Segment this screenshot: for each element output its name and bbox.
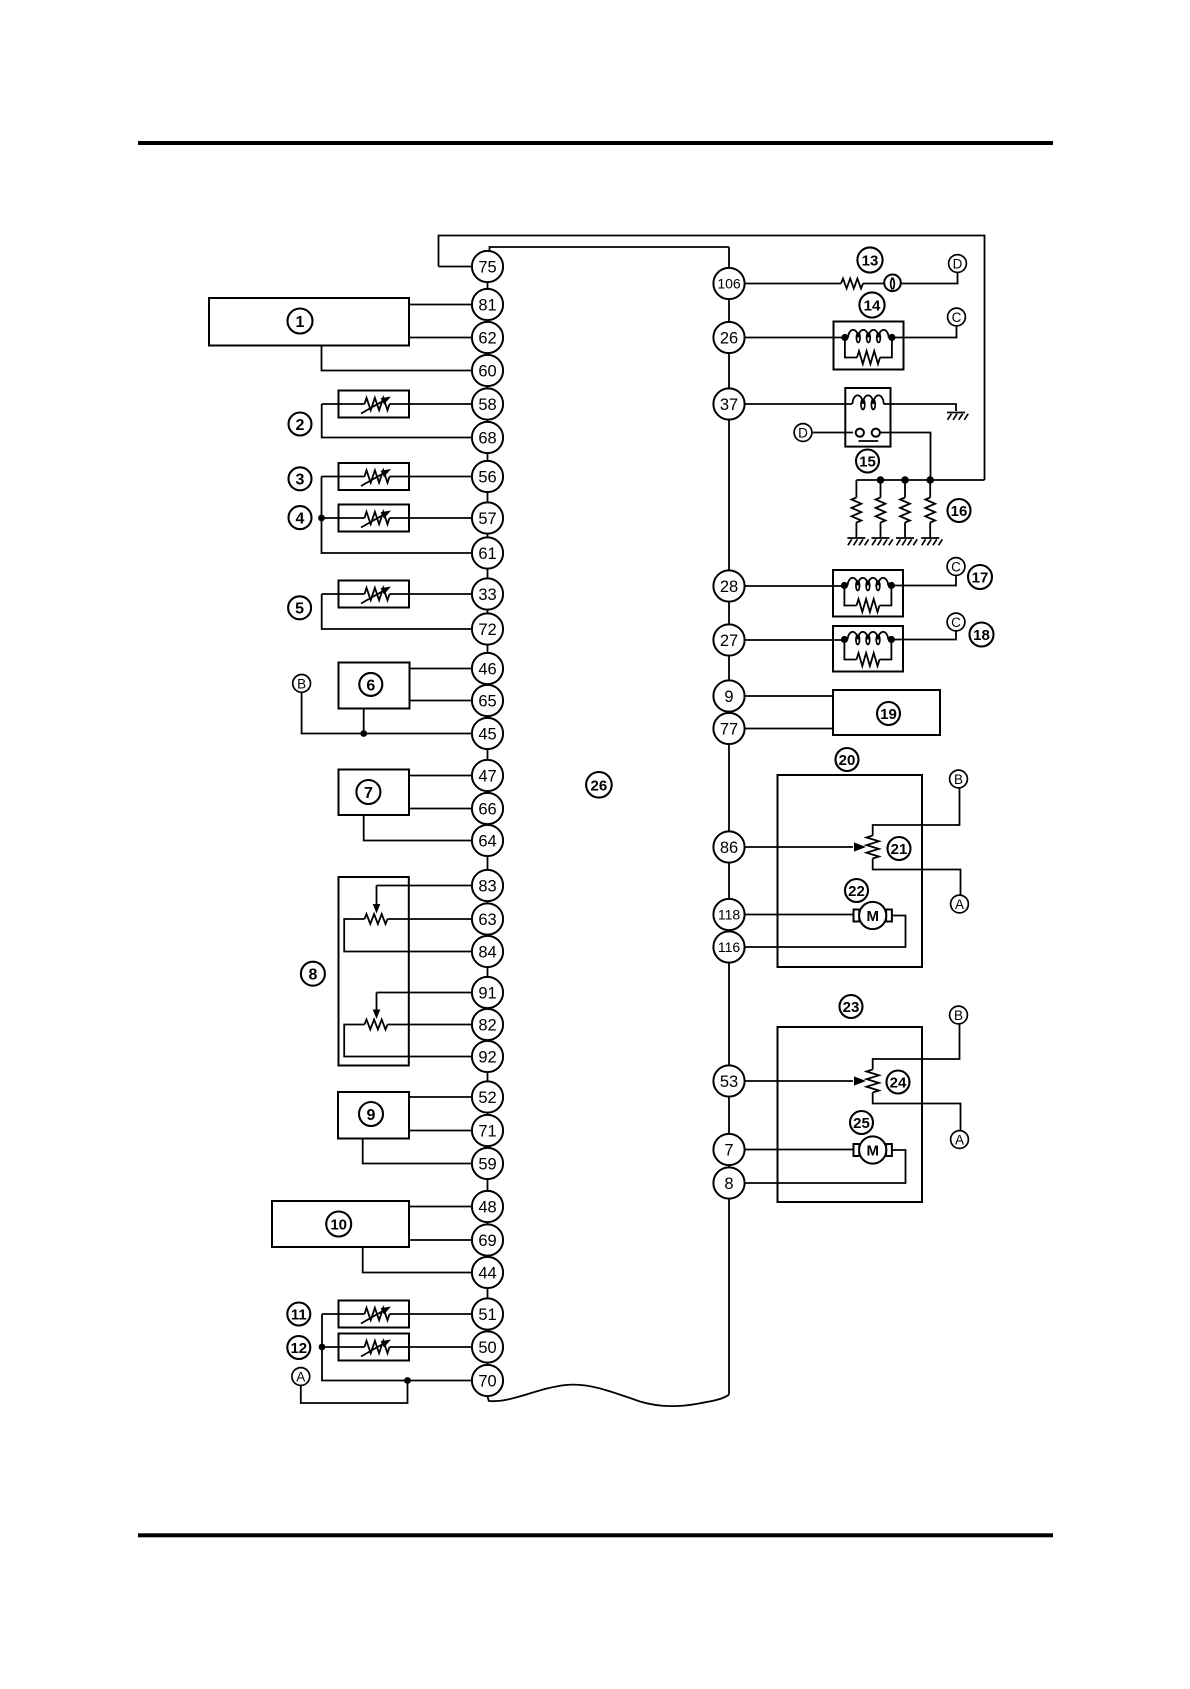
svg-text:77: 77 xyxy=(720,720,738,738)
svg-text:7: 7 xyxy=(364,785,373,802)
svg-text:37: 37 xyxy=(720,396,738,414)
svg-text:19: 19 xyxy=(880,706,897,723)
svg-text:92: 92 xyxy=(478,1048,496,1066)
svg-text:71: 71 xyxy=(478,1122,496,1140)
svg-text:17: 17 xyxy=(972,570,989,587)
svg-text:8: 8 xyxy=(308,967,317,984)
svg-text:18: 18 xyxy=(973,627,990,644)
svg-text:28: 28 xyxy=(720,578,738,596)
svg-text:63: 63 xyxy=(478,911,496,929)
svg-text:3: 3 xyxy=(296,472,305,489)
svg-text:D: D xyxy=(953,256,963,271)
svg-text:M: M xyxy=(866,908,879,925)
svg-text:33: 33 xyxy=(478,586,496,604)
svg-text:2: 2 xyxy=(296,417,305,434)
svg-text:24: 24 xyxy=(890,1075,907,1092)
svg-text:9: 9 xyxy=(367,1107,376,1124)
svg-text:44: 44 xyxy=(478,1264,496,1282)
svg-text:46: 46 xyxy=(478,660,496,678)
svg-text:16: 16 xyxy=(951,503,968,520)
svg-text:27: 27 xyxy=(720,632,738,650)
svg-text:11: 11 xyxy=(291,1307,307,1324)
svg-text:81: 81 xyxy=(478,296,496,314)
svg-text:9: 9 xyxy=(724,688,733,706)
svg-text:72: 72 xyxy=(478,621,496,639)
svg-text:61: 61 xyxy=(478,545,496,563)
svg-text:C: C xyxy=(951,615,961,630)
svg-text:83: 83 xyxy=(478,877,496,895)
svg-text:69: 69 xyxy=(478,1232,496,1250)
svg-text:68: 68 xyxy=(478,429,496,447)
svg-text:66: 66 xyxy=(478,800,496,818)
svg-text:25: 25 xyxy=(853,1115,870,1132)
svg-text:84: 84 xyxy=(478,943,496,961)
svg-text:57: 57 xyxy=(478,510,496,528)
svg-text:D: D xyxy=(798,425,808,440)
svg-text:8: 8 xyxy=(724,1175,733,1193)
svg-text:48: 48 xyxy=(478,1198,496,1216)
svg-text:52: 52 xyxy=(478,1089,496,1107)
svg-text:10: 10 xyxy=(330,1217,347,1234)
svg-text:A: A xyxy=(955,1132,964,1147)
svg-text:65: 65 xyxy=(478,692,496,710)
svg-text:118: 118 xyxy=(718,907,741,923)
svg-text:14: 14 xyxy=(864,298,881,315)
svg-text:47: 47 xyxy=(478,767,496,785)
svg-text:C: C xyxy=(951,559,961,574)
svg-text:20: 20 xyxy=(839,752,856,769)
svg-text:12: 12 xyxy=(290,1340,307,1357)
svg-text:45: 45 xyxy=(478,725,496,743)
svg-text:91: 91 xyxy=(478,984,496,1002)
svg-text:1: 1 xyxy=(296,314,305,331)
svg-text:13: 13 xyxy=(862,253,879,270)
svg-text:26: 26 xyxy=(720,329,738,347)
svg-text:15: 15 xyxy=(859,454,876,471)
svg-text:51: 51 xyxy=(478,1306,496,1324)
svg-text:M: M xyxy=(866,1142,879,1159)
svg-text:82: 82 xyxy=(478,1016,496,1034)
svg-text:A: A xyxy=(296,1369,305,1384)
svg-text:70: 70 xyxy=(478,1372,496,1390)
svg-text:116: 116 xyxy=(718,939,741,955)
svg-text:56: 56 xyxy=(478,468,496,486)
svg-text:22: 22 xyxy=(848,883,865,900)
svg-text:53: 53 xyxy=(720,1073,738,1091)
svg-text:75: 75 xyxy=(478,258,496,276)
svg-text:B: B xyxy=(954,772,963,787)
svg-text:106: 106 xyxy=(717,276,741,292)
svg-text:60: 60 xyxy=(478,362,496,380)
svg-text:50: 50 xyxy=(478,1339,496,1357)
svg-text:A: A xyxy=(955,897,964,912)
svg-text:4: 4 xyxy=(296,511,305,528)
svg-text:62: 62 xyxy=(478,329,496,347)
svg-text:58: 58 xyxy=(478,396,496,414)
svg-text:B: B xyxy=(297,676,306,691)
svg-text:86: 86 xyxy=(720,839,738,857)
svg-text:21: 21 xyxy=(891,841,908,858)
svg-text:59: 59 xyxy=(478,1155,496,1173)
svg-text:6: 6 xyxy=(366,677,375,694)
svg-text:64: 64 xyxy=(478,832,496,850)
svg-text:26: 26 xyxy=(591,777,608,794)
svg-text:B: B xyxy=(954,1008,963,1023)
svg-text:7: 7 xyxy=(724,1141,733,1159)
svg-text:C: C xyxy=(952,310,962,325)
svg-text:23: 23 xyxy=(843,999,860,1016)
svg-text:5: 5 xyxy=(295,601,304,618)
